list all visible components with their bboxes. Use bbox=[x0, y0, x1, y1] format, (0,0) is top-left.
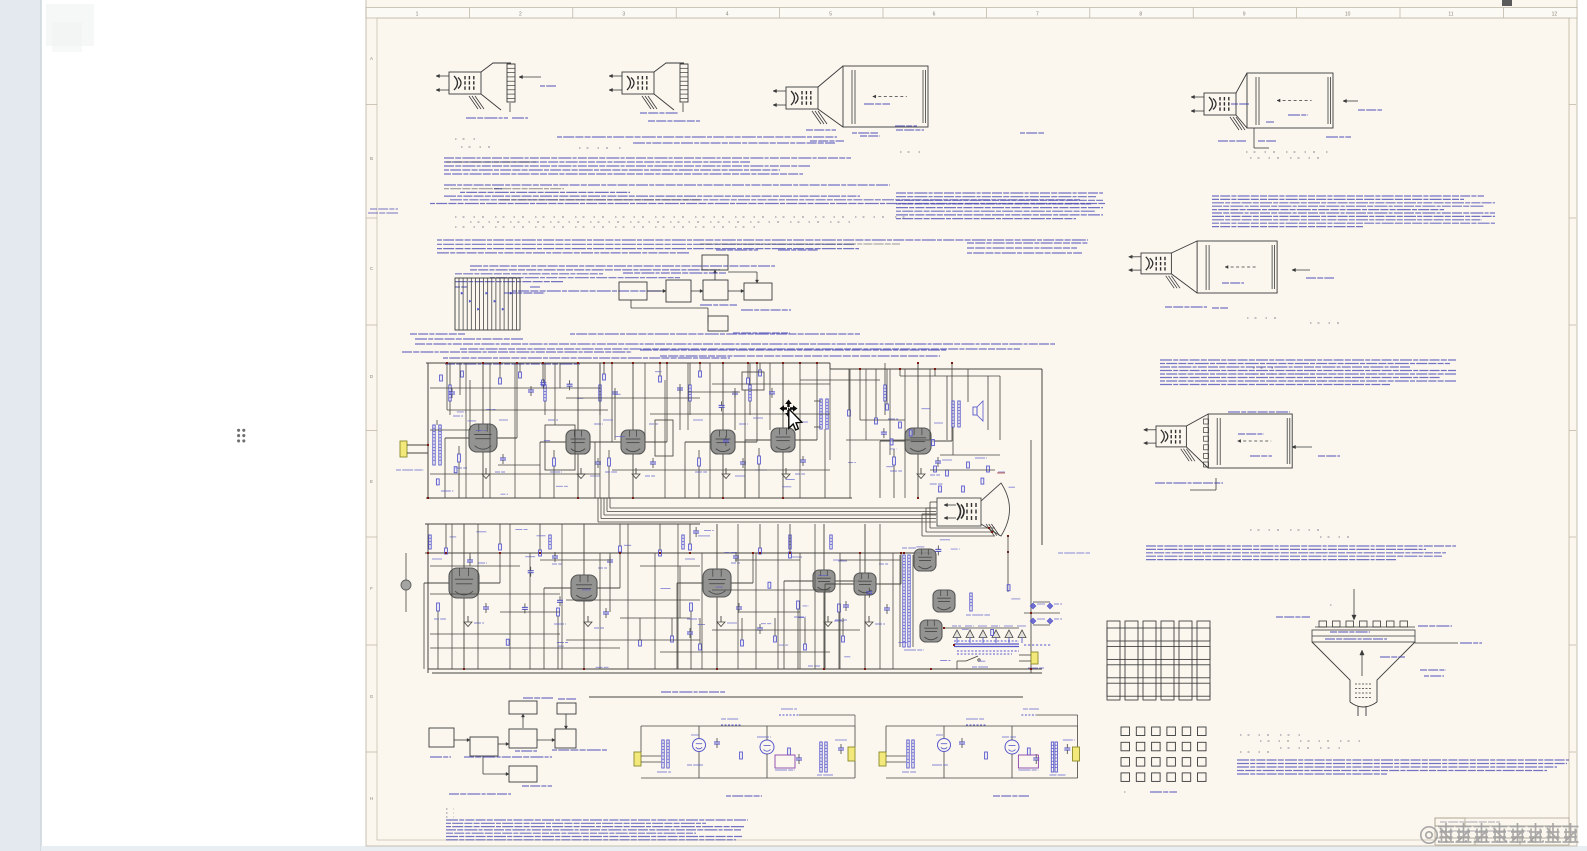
svg-text:H: H bbox=[370, 796, 373, 801]
label photosensor right of tube 1 bbox=[540, 85, 556, 87]
labels around camera tube 3 bbox=[806, 129, 836, 131]
bottom right text block bbox=[1237, 759, 1569, 761]
cathode ground of V2 bbox=[580, 468, 582, 474]
connect to color TV label bbox=[1058, 552, 1090, 554]
grid of discrete mosaic squares bbox=[1121, 727, 1206, 781]
additional junction dots bbox=[446, 362, 448, 364]
mains switch and AC220 label bbox=[957, 660, 966, 662]
FM modulator output capacitor bbox=[1064, 747, 1070, 749]
FM modulator oscillator tube bbox=[938, 739, 951, 752]
value labels near V11 bbox=[833, 559, 843, 561]
stage wiring for tube V5 bbox=[745, 362, 818, 498]
wire: left vertical rail upper bbox=[427, 363, 429, 498]
dark emphasis segments in paragraph bbox=[444, 188, 564, 190]
cathode ground of V11 bbox=[868, 616, 870, 622]
bottom-right funnel picture tube bbox=[1276, 589, 1482, 716]
coupling capacitor of V9 bbox=[736, 606, 742, 608]
extra horizontal rails upper block bbox=[430, 376, 1000, 470]
FM modulator module box bbox=[1018, 755, 1038, 768]
AM modulator coil bbox=[721, 724, 741, 726]
speaker symbol bbox=[973, 407, 977, 415]
vacuum tube V5 bbox=[771, 428, 795, 452]
svg-text:12: 12 bbox=[1552, 12, 1558, 18]
AM modulator tank components bbox=[740, 752, 743, 759]
DC output yellow box bbox=[1031, 652, 1038, 664]
vacuum tube V2 bbox=[566, 430, 590, 454]
anode load coil of V1 bbox=[449, 385, 451, 401]
label right of tube 5 bbox=[1306, 277, 1334, 279]
additional blue value labels scattered bbox=[698, 535, 711, 537]
schematic sheet page background bbox=[366, 0, 1577, 846]
labels under camera tube 2 bbox=[640, 112, 678, 114]
cathode ground of V9 bbox=[720, 616, 722, 622]
anode load coil of V6 bbox=[884, 385, 886, 401]
cathode ground of V1 bbox=[485, 468, 487, 474]
screen coil of V11 bbox=[830, 535, 832, 549]
input terminal yellow box bbox=[400, 441, 407, 457]
AM modulator output yellow terminal bbox=[848, 747, 855, 761]
AM modulator output transformer bbox=[820, 742, 822, 772]
svg-text:E: E bbox=[370, 479, 373, 484]
heater winding right bbox=[1024, 644, 1051, 646]
bottom text block left bbox=[446, 819, 748, 821]
sound output transformer upper right bbox=[820, 399, 822, 429]
wire: bottom rail 2 bbox=[432, 672, 1042, 674]
value labels near V9 bbox=[685, 558, 695, 560]
title label above tube 6 box bbox=[1228, 411, 1290, 413]
anode load coil of V5 bbox=[749, 385, 751, 401]
grid resistor of V6 bbox=[893, 457, 896, 465]
wire: left vertical rail lower bbox=[427, 524, 429, 673]
demo circuit AM modulator bbox=[634, 709, 855, 796]
wire: bottom rail 3 bbox=[589, 696, 1023, 698]
AM modulator input transformer bbox=[662, 740, 664, 768]
centered heading above circuit bbox=[640, 349, 947, 351]
labels under comb bbox=[410, 333, 465, 335]
svg-text:F: F bbox=[370, 586, 373, 591]
value labels near V2 bbox=[548, 419, 558, 421]
middle paragraph column bbox=[896, 192, 1103, 194]
sparse digit rows right of tube 5 bbox=[1247, 317, 1287, 319]
signal output line under tube 6 bbox=[1215, 478, 1217, 490]
camera tube 1 (photoconductive camera tube, top-left) bbox=[436, 63, 556, 118]
FM modulator coil bbox=[966, 724, 986, 726]
grid resistor of V2 bbox=[553, 458, 556, 466]
bottom-left flowchart bbox=[429, 698, 607, 794]
FM modulator input yellow terminal bbox=[879, 752, 886, 766]
svg-text:10: 10 bbox=[1345, 12, 1351, 18]
coupling capacitor of V3 bbox=[650, 461, 656, 463]
coupling capacitor of V7 bbox=[483, 606, 489, 608]
chemical formula sub-block bbox=[470, 265, 775, 267]
coupling capacitor of V4 bbox=[740, 461, 746, 463]
stage wiring for tube V8 bbox=[544, 524, 621, 670]
cathode ground of V6 bbox=[920, 468, 922, 474]
vidicon camera label right of tube 4 bbox=[1358, 109, 1382, 111]
photoconductor label tube 4 bbox=[1288, 114, 1308, 116]
AM modulator oscillator tube bbox=[693, 739, 706, 752]
extra vertical stubs upper block bbox=[447, 363, 1000, 498]
mosaic squares on left edge of tube 6 box bbox=[1204, 419, 1209, 424]
vacuum tube V4 bbox=[711, 430, 735, 454]
svg-text:9: 9 bbox=[1243, 12, 1246, 18]
labels around funnel tube bbox=[1276, 616, 1310, 618]
FM modulator output yellow terminal bbox=[1073, 747, 1080, 761]
signal output line tube 4 bbox=[1253, 128, 1255, 148]
left margin row dividers bbox=[366, 104, 377, 106]
electron beam label inside tube 4 bbox=[1231, 103, 1249, 105]
anode load coil of V4 bbox=[689, 385, 691, 401]
labels under camera tube 5 bbox=[1165, 306, 1207, 308]
FM modulator caption bbox=[993, 795, 1029, 797]
extra top components upper-left bbox=[440, 375, 443, 381]
mid horizontal runs upper bbox=[430, 384, 930, 474]
stage wiring for tube V4 bbox=[685, 362, 758, 498]
target label tube 4 bbox=[1266, 121, 1274, 123]
top-right small ui mark bbox=[1502, 0, 1512, 6]
coupling capacitor of V11 bbox=[884, 607, 890, 609]
value labels near V1 bbox=[453, 415, 463, 417]
camera tube 5 (right column upper) bbox=[1129, 241, 1334, 308]
long vertical feeders lower block bbox=[452, 524, 893, 669]
AM modulator input yellow terminal bbox=[634, 752, 641, 766]
svg-text:3: 3 bbox=[622, 12, 625, 18]
vacuum tube V12 bbox=[914, 549, 936, 571]
misc blue components upper right area bbox=[848, 410, 851, 416]
anode load coil of V3 bbox=[599, 385, 601, 401]
svg-text:5: 5 bbox=[829, 12, 832, 18]
wire: upper block top rail bbox=[426, 362, 830, 364]
deflection bus lines to picture tube bbox=[610, 507, 936, 509]
grid resistor of V8 bbox=[557, 608, 560, 616]
FM modulator amplifier tube bbox=[1005, 740, 1019, 754]
value labels near V7 bbox=[432, 558, 442, 560]
labels mid flowchart bbox=[623, 272, 726, 274]
legend lines above circuit bbox=[402, 351, 632, 353]
svg-text:2: 2 bbox=[519, 12, 522, 18]
wire: right vertical rail B bbox=[1041, 369, 1043, 545]
svg-text:4: 4 bbox=[726, 12, 729, 18]
value labels near V10 bbox=[792, 556, 802, 558]
power transformer windings bbox=[954, 641, 1019, 654]
svg-text:6: 6 bbox=[933, 12, 936, 18]
camera tube 3 with target screen box bbox=[773, 66, 928, 141]
main paragraph block left bbox=[444, 184, 890, 186]
label right of tube 6 bbox=[1318, 455, 1340, 457]
rectifier bridge diodes bbox=[1024, 602, 1062, 625]
value labels near V3 bbox=[603, 419, 613, 421]
grid resistor of V5 bbox=[758, 456, 761, 464]
FM modulator input transformer bbox=[907, 740, 909, 768]
sparse digit row right top bbox=[1246, 151, 1332, 153]
grid resistor of V11 bbox=[838, 604, 841, 612]
labels under camera tube 6 bbox=[1155, 482, 1223, 484]
camera tube 4 (vidicon with photoconductor box, top right) bbox=[1191, 73, 1382, 148]
stage wiring for tube V7 bbox=[424, 524, 501, 670]
labels under camera tube 4 bbox=[1218, 140, 1246, 142]
vacuum tube V3 bbox=[621, 430, 645, 454]
svg-text:11: 11 bbox=[1448, 12, 1453, 18]
arrow right of tube 6 bbox=[1292, 446, 1312, 448]
phosphor label inside tube 5 box bbox=[1222, 282, 1244, 284]
stage wiring for tube V11 bbox=[825, 524, 902, 670]
svg-text:7: 7 bbox=[1036, 12, 1039, 18]
left sidebar strip bbox=[0, 0, 41, 851]
sheet top ruler with column numbers bbox=[366, 8, 1577, 19]
main circuit block bbox=[425, 363, 1042, 697]
screen coil of V7 bbox=[429, 535, 431, 549]
AM modulator module box bbox=[775, 755, 795, 768]
red voltage label bbox=[997, 472, 1005, 474]
grid resistor of V9 bbox=[690, 603, 693, 611]
cathode ground of V3 bbox=[635, 468, 637, 474]
horizontal output transformer flyback bbox=[900, 548, 924, 650]
long lines under comb row bbox=[570, 333, 860, 335]
stage wiring for tube V3 bbox=[595, 362, 668, 498]
juejin watermark bbox=[1421, 823, 1579, 843]
coupling capacitor of V6 bbox=[935, 460, 941, 462]
coupling capacitor of V1 bbox=[500, 457, 506, 459]
vacuum tube V10 bbox=[813, 570, 835, 592]
stage wiring for tube V9 bbox=[677, 524, 754, 670]
grid resistor of V3 bbox=[608, 458, 611, 466]
vacuum tube V14 bbox=[920, 620, 942, 642]
sparse formula rows under paragraph bbox=[455, 216, 905, 218]
small gray connector left lower bbox=[401, 580, 411, 590]
vacuum tube V13 bbox=[933, 590, 955, 612]
camera tube 2 (vidicon, top second) bbox=[609, 63, 700, 121]
input transformer bbox=[433, 425, 435, 465]
right mid paragraph block bbox=[1160, 359, 1456, 361]
wrap wires left of CRT bbox=[922, 502, 1009, 592]
annotation small digit rows under tube 2 bbox=[455, 138, 475, 140]
picture tube CRT in circuit bbox=[937, 483, 1010, 536]
second transformer upper right bbox=[952, 401, 954, 427]
camera tube 6 (right column lower, silicon target) bbox=[1144, 412, 1340, 490]
extra horizontal rails lower block bbox=[430, 560, 900, 652]
right margin row dividers bbox=[1569, 104, 1576, 106]
FM modulator tank components bbox=[985, 752, 988, 759]
mid flowchart: signal chain bbox=[504, 250, 818, 333]
grid resistor of V7 bbox=[437, 603, 440, 611]
wires lower right linking bbox=[944, 627, 1019, 629]
drag handle six dots bbox=[237, 429, 240, 432]
title block table bottom right bbox=[1435, 818, 1569, 845]
right top paragraph block bbox=[1212, 195, 1484, 197]
AM modulator grid capacitor bbox=[714, 741, 720, 743]
svg-text:8: 8 bbox=[1139, 12, 1142, 18]
AM modulator wires bbox=[641, 755, 661, 757]
extra vertical stubs lower block bbox=[446, 524, 843, 644]
phosphor comb structure bbox=[455, 278, 520, 330]
stage wiring for tube V10 bbox=[784, 524, 861, 670]
value labels near V5 bbox=[753, 417, 763, 419]
svg-text:A: A bbox=[370, 56, 373, 61]
grid resistor of V1 bbox=[458, 454, 461, 462]
long vertical feeders upper block bbox=[466, 363, 930, 498]
TV signal input label bbox=[396, 469, 424, 471]
labels under camera tube 1 bbox=[466, 117, 508, 119]
cathode ground of V8 bbox=[587, 616, 589, 622]
arrow right of tube 4 bbox=[1343, 100, 1358, 102]
wire: upper block bottom rail bbox=[426, 497, 852, 499]
PVA labels bbox=[455, 286, 467, 288]
value labels near V4 bbox=[693, 419, 703, 421]
interstage screen boxes bbox=[545, 425, 575, 470]
grid resistor of V4 bbox=[698, 458, 701, 466]
caption under main circuit bbox=[661, 691, 725, 693]
screen coil of V9 bbox=[682, 535, 684, 549]
sheet inner frame bbox=[377, 18, 1569, 840]
svg-text:B: B bbox=[370, 156, 373, 161]
anode load coil of V2 bbox=[544, 385, 546, 401]
right column continuation lines bbox=[967, 242, 1088, 244]
vacuum tube V8 bbox=[571, 575, 597, 601]
vacuum tube V6 bbox=[905, 428, 931, 454]
lower extra components bbox=[445, 548, 448, 554]
cathode ground of V10 bbox=[827, 616, 829, 622]
vacuum tube V11 bbox=[854, 573, 876, 595]
paragraph block second left bbox=[437, 239, 1088, 241]
coupling capacitor of V8 bbox=[603, 611, 609, 613]
AM modulator coil top right bbox=[779, 714, 799, 716]
mid horizontal runs lower bbox=[430, 590, 860, 640]
value labels near V8 bbox=[552, 563, 562, 565]
AM modulator caption bbox=[726, 795, 762, 797]
AM modulator amplifier tube bbox=[760, 740, 774, 754]
wire: lower mid rail bbox=[425, 552, 932, 554]
vacuum tube V9 bbox=[703, 569, 731, 597]
faint toolbar ghost top-left of white panel bbox=[46, 4, 94, 46]
stage wiring for tube V6 bbox=[880, 362, 953, 498]
wire: lower top rail bbox=[425, 523, 700, 525]
vacuum tube V7 bbox=[449, 568, 479, 598]
coupling capacitor of V2 bbox=[595, 461, 601, 463]
wire: bottom rail 1 bbox=[428, 668, 1042, 670]
vertical tiny text at page left margin bbox=[370, 208, 398, 210]
label chessboard mosaic bbox=[1150, 791, 1177, 793]
arrow pointing left toward tube 5 box bbox=[1292, 269, 1310, 271]
woven chessboard pattern bbox=[1107, 621, 1210, 700]
value labels near V6 bbox=[888, 418, 898, 420]
more capacitors and resistors scattered bbox=[528, 570, 534, 572]
stage wiring for tube V2 bbox=[540, 362, 613, 498]
FM modulator grid capacitor bbox=[959, 741, 965, 743]
grid resistor of V10 bbox=[797, 601, 800, 609]
cathode ground of V7 bbox=[467, 616, 469, 622]
vacuum tube V1 bbox=[469, 424, 497, 452]
screen coil of V10 bbox=[789, 535, 791, 549]
wire: upper block top rail right bbox=[830, 368, 1042, 370]
bottom edge strip bbox=[41, 846, 1587, 851]
cathode ground of V5 bbox=[785, 468, 787, 474]
coupling capacitor of V10 bbox=[843, 604, 849, 606]
wire: right vertical rail A bbox=[1030, 440, 1032, 673]
mouse cursor with move cross bbox=[780, 400, 802, 431]
numbered list left block bbox=[444, 157, 851, 159]
FM modulator wires bbox=[886, 755, 906, 757]
filter inductor bbox=[970, 593, 972, 611]
labels bottom-left flowchart bbox=[523, 697, 553, 699]
right lower paragraph block under tube 6 bbox=[1146, 545, 1456, 547]
labels inside tube 6 box bbox=[1238, 433, 1264, 435]
coupling capacitor of V5 bbox=[800, 459, 806, 461]
screen coil of V8 bbox=[549, 535, 551, 549]
selenium rectifier stack arrows bbox=[952, 626, 1026, 643]
FM modulator coil top right bbox=[1021, 714, 1036, 716]
arrow left of camera tube 1 output bbox=[519, 76, 541, 78]
annotation line top center-right bbox=[557, 136, 837, 138]
labels near camera tube 3 top bbox=[895, 125, 917, 127]
FM modulator output transformer bbox=[1051, 742, 1053, 772]
demo circuit FM modulator bbox=[879, 709, 1080, 796]
AM modulator output capacitor bbox=[838, 747, 844, 749]
stage wiring for tube V1 bbox=[445, 362, 518, 498]
svg-text:1: 1 bbox=[416, 12, 419, 18]
cathode ground of V4 bbox=[725, 468, 727, 474]
svg-text:G: G bbox=[370, 694, 374, 699]
